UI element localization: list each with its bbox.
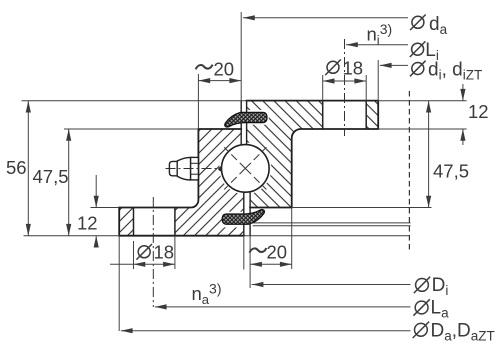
dimension 47,5 inner ring height [428,101,430,208]
grease nipple [169,157,198,180]
dimension Ø18 bottom bolt hole [110,236,175,269]
extension line right of inner ring top face [378,100,466,102]
extension line left of outer ring flange top [91,207,120,209]
dimension 56 overall height [27,101,29,236]
extension line right of inner ring bottom face [292,207,432,209]
ball pocket (raceway clearance) [219,142,271,194]
outer ring cross-section (hatched, with bottom flange and bolt hole) [119,129,244,236]
leader Ø L_a with hole count n_a [155,306,411,308]
dimension ~20 top [198,12,241,129]
inner ring cross-section (hatched, with top flange and bolt hole) [247,101,379,208]
dimension 12 inner ring flange thickness [462,84,464,145]
four-point contact lines on ball [224,147,266,189]
grease nipple hex facet lines [191,163,199,174]
leader Ø L_i with hole count n_i [346,44,408,46]
leader Ø d_a [243,17,408,19]
svg-text:47,5: 47,5 [433,161,469,182]
grease hole opening at raceway [218,166,222,171]
ring split gap above ball [241,101,246,147]
inner ring bolt hole centreline [344,39,346,136]
leader Ø D_i [252,284,411,286]
svg-text:56: 56 [6,157,27,178]
svg-text:12: 12 [468,101,489,122]
adjacent construction line under bearing [244,235,410,237]
svg-text:20: 20 [214,59,235,80]
adjacent construction line at inner ring top face [22,100,247,102]
bottom seal [222,210,264,225]
svg-text:47,5: 47,5 [33,166,69,187]
leader Ø d_i, d_iZT [378,60,408,101]
outer ring bolt hole centreline [152,197,154,307]
dimension ~20 bottom [244,208,292,289]
svg-text:18: 18 [154,242,175,263]
extension line right of inner ring flange underside [378,128,466,130]
svg-text:18: 18 [343,58,364,79]
inner ring bolt hole walls (top Ø18 hole) [323,101,367,129]
grease passage centreline [166,168,224,170]
ring split gap below ball [244,191,250,236]
outer ring bolt hole walls (bottom Ø18 hole) [134,208,175,236]
leader Ø D_a, D_aZT [119,236,410,331]
svg-text:12: 12 [77,212,98,233]
dimension 12 outer ring flange thickness [95,175,97,244]
top seal [225,112,267,127]
extension line left of outer ring top face [64,128,198,130]
svg-text:20: 20 [267,242,288,263]
extension line left of outer ring bottom face [24,235,120,237]
dimension Ø18 top bolt hole [323,75,367,101]
centring diameter d_iZT dashed line [408,91,410,252]
support structure double line under inner ring [253,223,411,226]
ball (rolling element) [222,145,270,193]
dimension 47,5 outer ring height [68,129,70,236]
